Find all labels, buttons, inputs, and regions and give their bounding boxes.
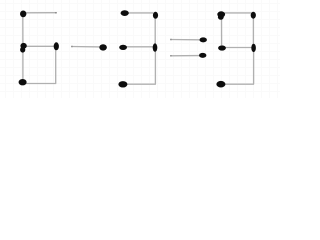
faint grid	[0, 0, 280, 98]
digit 9: head bottom-left	[216, 81, 225, 88]
digit 9: head top-right	[251, 12, 256, 19]
minus sign: head right	[99, 44, 107, 50]
digit 3: stick top horizontal	[126, 12, 154, 14]
digit 3: head top-right	[153, 12, 158, 19]
digit 9: head top-left lower	[218, 15, 224, 20]
digit 3: head bottom-left	[118, 81, 127, 87]
digit 9: stick top horizontal	[223, 12, 252, 14]
digit 6: head top-left	[20, 11, 26, 18]
digit 3: stick bottom horizontal	[125, 83, 156, 85]
digit 6: head middle-right	[54, 42, 59, 50]
equals sign: head bottom bar right	[199, 53, 206, 58]
digit 6: head middle-left lower	[20, 47, 25, 53]
digit 6: stick bottom-right vertical	[55, 47, 57, 84]
digit 9: stick bottom-right vertical	[253, 49, 255, 84]
digit 3: head middle-right	[153, 43, 158, 51]
digit 6: head middle-left upper	[20, 43, 26, 49]
equals sign: head top bar right	[200, 37, 207, 42]
digit 6: stick top-left vertical	[22, 14, 24, 46]
digit 6: stick middle horizontal	[24, 45, 56, 47]
digit 6: stick bottom-left vertical	[22, 47, 24, 83]
digit 9: stick top-right vertical	[252, 16, 254, 46]
minus sign: stick	[71, 46, 101, 48]
digit 9: head top-left upper	[217, 11, 225, 17]
digit 9: head middle-right	[251, 44, 256, 52]
digit 6: stick bottom horizontal	[24, 83, 56, 85]
digit 9: stick top-left vertical	[221, 15, 223, 45]
digit 9: head middle-left	[218, 45, 226, 50]
digit 3: head middle-left	[119, 45, 127, 50]
equals sign: stick bottom bar	[170, 55, 199, 57]
digit 3: stick top-right vertical	[154, 16, 156, 46]
equals sign: stick top bar	[170, 39, 200, 41]
digit 3: stick bottom-right vertical	[154, 49, 156, 84]
digit 6: stick top horizontal	[24, 12, 57, 14]
digit 9: stick bottom horizontal	[223, 83, 255, 85]
digit 3: head top-left	[121, 10, 129, 16]
digit 6: head bottom-left	[19, 79, 27, 85]
digit 3: stick middle horizontal	[125, 46, 154, 48]
digit 9: stick middle horizontal	[224, 47, 252, 49]
